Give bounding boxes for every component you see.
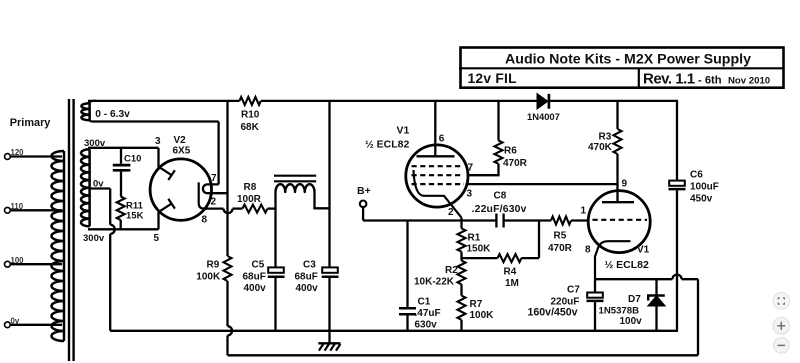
diode D 1N4007 — [537, 94, 547, 108]
V1 cathode with hook — [414, 170, 462, 218]
title block frame — [461, 48, 784, 88]
primary terminal 100 — [5, 261, 11, 267]
svg-text:10K-22K: 10K-22K — [414, 277, 455, 288]
svg-text:6X5: 6X5 — [173, 146, 191, 157]
primary terminal 0v — [5, 322, 11, 328]
wire R8 to choke node — [268, 207, 276, 209]
transformer primary winding — [63, 151, 66, 341]
V2 plate (pin 3) — [159, 167, 171, 175]
svg-text:150K: 150K — [467, 244, 492, 255]
svg-text:C8: C8 — [494, 191, 507, 202]
wire: bus below R9 with hop over ground rail — [226, 281, 228, 326]
svg-text:1N4007: 1N4007 — [527, 111, 560, 122]
transformer 6.3v heater winding — [88, 103, 91, 120]
svg-text:V1: V1 — [637, 245, 650, 256]
svg-text:400v: 400v — [296, 283, 319, 294]
svg-text:5: 5 — [154, 233, 160, 244]
resistor R10 — [239, 97, 260, 105]
wire: top rail to R3 to V1 pin 9 — [616, 101, 618, 129]
svg-text:400v: 400v — [244, 283, 267, 294]
svg-text:R7: R7 — [470, 299, 483, 310]
svg-text:100K: 100K — [470, 310, 495, 321]
resistor R1 — [458, 228, 466, 251]
chassis ground symbol — [328, 331, 330, 343]
tube V1 (triode half ECL82) envelope — [588, 191, 650, 253]
svg-text:R9: R9 — [207, 260, 220, 271]
title block divider vertical — [638, 68, 640, 87]
svg-text:Rev. 1.1: Rev. 1.1 — [643, 71, 695, 88]
wire: pin 3 row to R3 node — [466, 183, 618, 185]
svg-text:C10: C10 — [124, 154, 141, 165]
svg-text:7: 7 — [468, 163, 474, 174]
resistor R6 — [495, 141, 503, 164]
resistor R3 — [614, 129, 622, 154]
capacitor C6 (electrolytic) — [669, 181, 685, 186]
capacitor C5 (electrolytic) — [268, 267, 284, 272]
wire R5 to V1 pin 1 — [571, 219, 588, 221]
primary terminal 110 — [5, 207, 11, 213]
wire: C1 leg — [406, 221, 408, 309]
svg-text:Nov 2010: Nov 2010 — [728, 76, 770, 87]
viewer button expand — [773, 293, 789, 309]
V2 plate (pin 5) — [159, 204, 171, 212]
B+ terminal — [360, 201, 367, 208]
resistor R5 — [551, 217, 571, 225]
svg-text:C7: C7 — [567, 285, 580, 296]
resistor R11 — [117, 197, 125, 221]
wire: bottom return line — [228, 354, 699, 356]
svg-text:1M: 1M — [505, 278, 519, 289]
svg-text:C5: C5 — [252, 260, 265, 271]
svg-text:R1: R1 — [468, 233, 481, 244]
svg-text:.22uF/630v: .22uF/630v — [472, 204, 527, 215]
wire: R1/R2/R7 chain — [460, 218, 462, 229]
svg-text:1N5378B: 1N5378B — [599, 306, 640, 317]
svg-text:Primary: Primary — [10, 117, 51, 129]
svg-text:100R: 100R — [237, 194, 262, 205]
V2 cathode (pin 8) — [199, 182, 205, 208]
svg-text:V1: V1 — [397, 125, 410, 137]
svg-text:2: 2 — [448, 207, 454, 218]
svg-text:C6: C6 — [690, 170, 703, 181]
viewer button zoom out — [774, 338, 790, 354]
wire: right edge down through C6 — [676, 101, 678, 180]
wire: bus left of R10 (heater/top line down to bottom line, with R9) — [226, 101, 228, 256]
wire: top rail (6.3v top to C6 corner) — [88, 100, 239, 102]
svg-text:68K: 68K — [241, 122, 260, 133]
primary terminal 120 — [5, 154, 11, 160]
svg-text:8: 8 — [585, 245, 591, 256]
svg-text:0 - 6.3v: 0 - 6.3v — [95, 109, 130, 120]
wire: top rail to V1 pin 6 — [434, 101, 436, 156]
zener diode D7 — [655, 279, 657, 295]
V1 right cathode with hook to pin 8 — [595, 241, 631, 279]
resistor R7 — [458, 296, 466, 320]
wire R4 riser to B+ rail — [538, 221, 540, 259]
svg-text:½ ECL82: ½ ECL82 — [605, 259, 650, 271]
title block divider horizontal — [459, 67, 784, 69]
svg-text:3: 3 — [155, 136, 161, 147]
svg-text:D7: D7 — [628, 294, 641, 305]
V2 heater hook pin 7 to pin 2 — [203, 184, 228, 193]
svg-text:450v: 450v — [690, 194, 713, 205]
svg-text:100uF: 100uF — [690, 182, 719, 193]
svg-text:C3: C3 — [303, 260, 316, 271]
svg-text:470K: 470K — [588, 142, 613, 153]
svg-text:630v: 630v — [415, 320, 438, 331]
svg-text:R5: R5 — [554, 231, 567, 242]
wire: choke right leg to C3 bus — [315, 192, 330, 208]
svg-text:R8: R8 — [244, 182, 257, 193]
svg-text:470R: 470R — [548, 243, 573, 254]
wire: pin 8 row with hop over C6 leg — [595, 278, 672, 280]
resistor R8 — [242, 205, 267, 213]
svg-text:68uF: 68uF — [243, 272, 266, 283]
6.3v winding top lead — [90, 101, 96, 104]
wire: bus right of R10 down through C3 — [328, 101, 330, 267]
wire: V2 cathode to R8 with hop under bus — [204, 207, 223, 209]
svg-text:B+: B+ — [357, 185, 371, 197]
svg-text:3: 3 — [467, 189, 473, 200]
svg-text:Audio Note Kits - M2X Power Su: Audio Note Kits - M2X Power Supply — [505, 52, 751, 68]
tube V1 (pentode half ECL82) envelope — [406, 145, 468, 207]
svg-text:R6: R6 — [504, 146, 517, 157]
svg-text:R4: R4 — [504, 267, 517, 278]
wire: 6.3v filament wire — [96, 120, 219, 122]
capacitor C1 — [399, 307, 416, 310]
capacitor C10 — [120, 148, 122, 164]
choke L1 core lines — [274, 175, 316, 177]
svg-text:300v: 300v — [83, 233, 105, 244]
choke L1 winding — [276, 184, 315, 192]
svg-text:C1: C1 — [418, 297, 431, 308]
wire: 300v bottom to V2 pin 5 — [88, 228, 159, 230]
svg-text:9: 9 — [622, 179, 628, 190]
svg-text:R3: R3 — [599, 131, 612, 142]
svg-text:12v FIL: 12v FIL — [468, 71, 517, 86]
transformer core — [68, 99, 70, 361]
wire: choke left leg down through C5 — [274, 192, 276, 267]
wire: R6 from top rail to pin 7 — [497, 101, 499, 141]
wire: ground rail — [110, 330, 678, 332]
capacitor C3 (electrolytic) — [322, 267, 338, 272]
capacitor C7 (electrolytic) — [594, 279, 596, 292]
rectifier tube V2 6X5 envelope — [150, 159, 211, 220]
capacitor C8 — [495, 214, 497, 228]
svg-text:V2: V2 — [174, 135, 187, 146]
svg-text:68uF: 68uF — [295, 272, 318, 283]
V1 grid dashed rows — [412, 165, 463, 167]
svg-text:160v/450v: 160v/450v — [528, 306, 578, 318]
wire: R4 row — [462, 257, 498, 259]
svg-text:1: 1 — [581, 206, 587, 217]
V1 right grid dashed — [593, 219, 648, 221]
resistor R4 — [498, 254, 522, 262]
svg-text:6: 6 — [439, 134, 445, 145]
svg-text:.47uF: .47uF — [415, 308, 441, 319]
svg-text:8: 8 — [202, 215, 208, 226]
wire: 300v top to V2 pin 3 — [88, 147, 159, 149]
svg-text:R10: R10 — [241, 110, 260, 121]
svg-text:R2: R2 — [445, 265, 458, 276]
viewer button zoom in — [773, 317, 790, 334]
resistor R9 — [224, 256, 232, 281]
wire: B+ rail — [362, 207, 364, 220]
transformer HV secondary winding — [88, 149, 91, 226]
V1 plate bar — [417, 155, 455, 157]
wire: 0v center tap down to ground rail (hop over 300v wire) — [90, 187, 111, 189]
svg-text:100K: 100K — [196, 272, 221, 283]
6.3v winding bottom lead — [90, 120, 96, 122]
wire C8 to R5 — [504, 219, 551, 221]
V1 right plate bar — [602, 201, 634, 203]
svg-text:- 6th: - 6th — [698, 75, 722, 87]
resistor R2 — [458, 261, 466, 285]
wire hop over ground rail — [228, 326, 233, 335]
svg-text:½ ECL82: ½ ECL82 — [365, 139, 410, 151]
svg-text:15K: 15K — [126, 211, 144, 222]
svg-text:470R: 470R — [503, 158, 528, 169]
svg-text:100v: 100v — [620, 316, 643, 327]
